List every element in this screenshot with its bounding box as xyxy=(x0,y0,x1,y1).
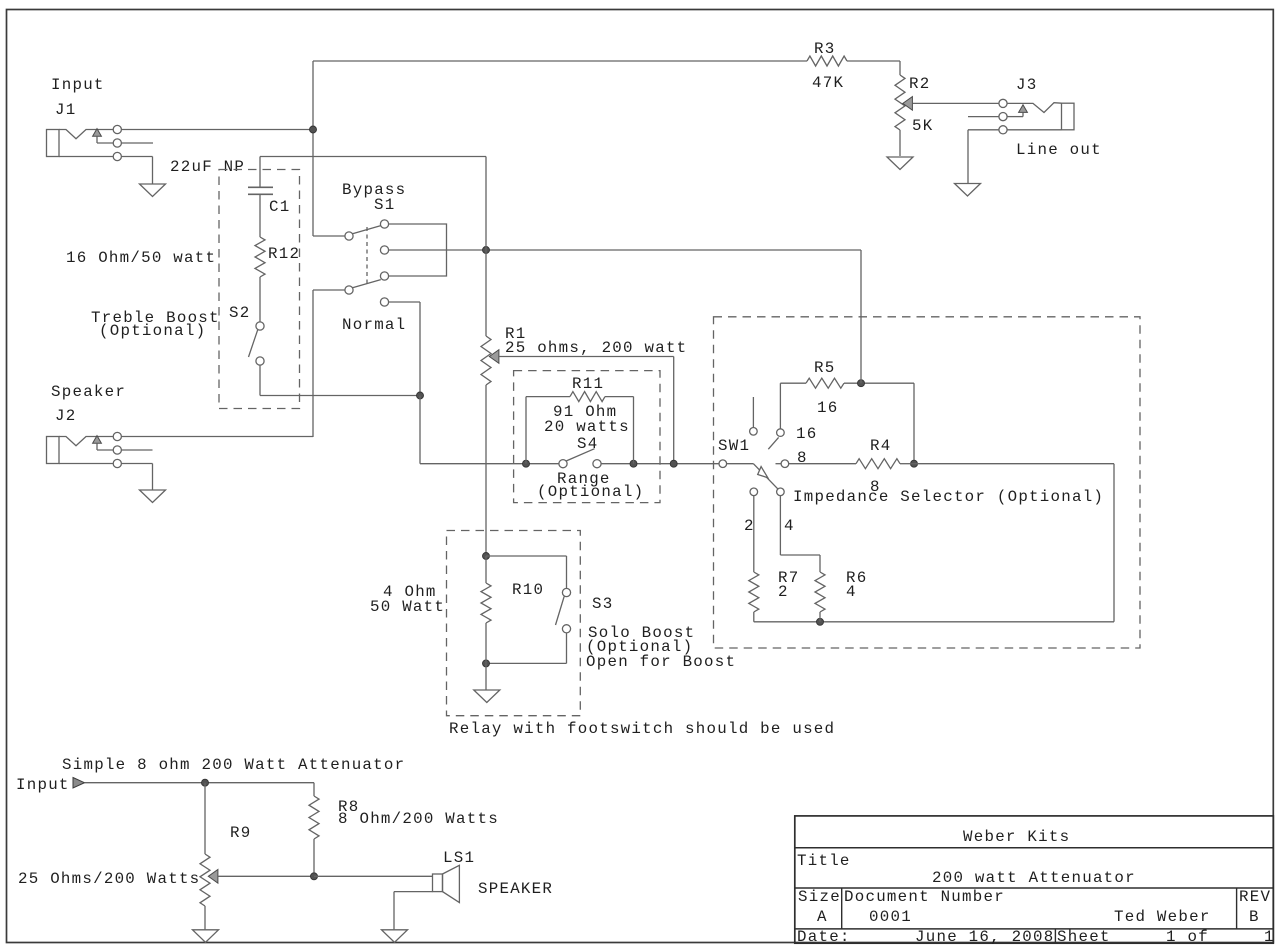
svg-text:22uF NP: 22uF NP xyxy=(170,158,245,176)
svg-text:2: 2 xyxy=(744,517,755,535)
svg-text:1: 1 xyxy=(1264,928,1275,946)
svg-text:2: 2 xyxy=(778,583,789,601)
svg-text:5K: 5K xyxy=(912,117,933,135)
svg-text:Input: Input xyxy=(16,776,70,794)
svg-text:Speaker: Speaker xyxy=(51,383,126,401)
svg-text:R5: R5 xyxy=(814,359,835,377)
svg-text:R12: R12 xyxy=(268,245,300,263)
svg-text:0001: 0001 xyxy=(869,908,912,926)
svg-text:4: 4 xyxy=(846,583,857,601)
svg-text:Open for Boost: Open for Boost xyxy=(586,653,736,671)
svg-text:Relay with footswitch should b: Relay with footswitch should be used xyxy=(449,720,835,738)
svg-text:J3: J3 xyxy=(1016,76,1037,94)
svg-text:20 watts: 20 watts xyxy=(544,418,630,436)
svg-text:16 Ohm/50 watt: 16 Ohm/50 watt xyxy=(66,249,216,267)
svg-text:50 Watt: 50 Watt xyxy=(370,598,445,616)
svg-text:200 watt Attenuator: 200 watt Attenuator xyxy=(932,869,1136,887)
svg-text:Normal: Normal xyxy=(342,316,406,334)
svg-text:Date:: Date: xyxy=(797,928,851,946)
svg-text:25 Ohms/200 Watts: 25 Ohms/200 Watts xyxy=(18,870,200,888)
svg-text:Document Number: Document Number xyxy=(844,888,1005,906)
svg-text:R9: R9 xyxy=(230,824,251,842)
svg-text:June 16, 2008: June 16, 2008 xyxy=(915,928,1055,946)
svg-text:Title: Title xyxy=(797,852,851,870)
svg-text:Ted Weber: Ted Weber xyxy=(1114,908,1211,926)
svg-text:4: 4 xyxy=(784,517,795,535)
svg-text:1 of: 1 of xyxy=(1166,928,1209,946)
svg-text:Weber Kits: Weber Kits xyxy=(963,828,1070,846)
svg-text:16: 16 xyxy=(817,399,838,417)
svg-text:Sheet: Sheet xyxy=(1057,928,1111,946)
svg-text:LS1: LS1 xyxy=(443,849,475,867)
svg-text:J2: J2 xyxy=(55,407,76,425)
svg-text:Size: Size xyxy=(798,888,841,906)
svg-text:C1: C1 xyxy=(269,198,290,216)
svg-text:SW1: SW1 xyxy=(718,437,750,455)
svg-text:Impedance Selector (Optional): Impedance Selector (Optional) xyxy=(793,488,1104,506)
svg-text:R2: R2 xyxy=(909,75,930,93)
svg-text:Input: Input xyxy=(51,76,105,94)
svg-text:J1: J1 xyxy=(55,101,76,119)
svg-text:47K: 47K xyxy=(812,74,844,92)
svg-text:8 Ohm/200 Watts: 8 Ohm/200 Watts xyxy=(338,810,499,828)
svg-text:S2: S2 xyxy=(229,304,250,322)
svg-text:R4: R4 xyxy=(870,437,891,455)
svg-text:S3: S3 xyxy=(592,595,613,613)
svg-text:(Optional): (Optional) xyxy=(537,483,644,501)
svg-text:S4: S4 xyxy=(577,435,598,453)
svg-text:REV: REV xyxy=(1239,888,1271,906)
svg-text:25 ohms, 200 watt: 25 ohms, 200 watt xyxy=(505,339,687,357)
svg-text:(Optional): (Optional) xyxy=(99,322,206,340)
svg-text:B: B xyxy=(1249,908,1260,926)
svg-text:Simple 8 ohm 200 Watt Attenuat: Simple 8 ohm 200 Watt Attenuator xyxy=(62,756,405,774)
svg-text:R11: R11 xyxy=(572,375,604,393)
svg-text:Line out: Line out xyxy=(1016,141,1102,159)
svg-text:A: A xyxy=(817,908,828,926)
svg-text:SPEAKER: SPEAKER xyxy=(478,880,553,898)
svg-text:S1: S1 xyxy=(374,196,395,214)
svg-text:R10: R10 xyxy=(512,581,544,599)
svg-text:16: 16 xyxy=(796,425,817,443)
svg-text:R3: R3 xyxy=(814,40,835,58)
